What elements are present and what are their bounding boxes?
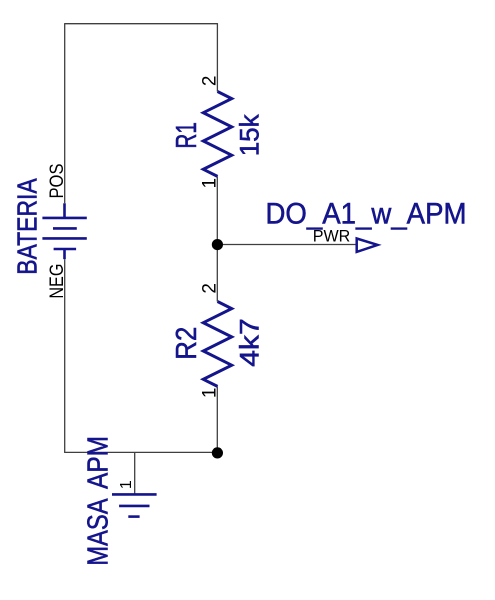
wire R2 pin1 to bottom junction xyxy=(216,386,218,452)
power flag triangle PWR xyxy=(357,239,378,252)
ground symbol MASA APM xyxy=(112,494,157,516)
wire bottom horizontal xyxy=(64,451,217,453)
svg-text:15k: 15k xyxy=(234,114,264,156)
wire ground stub xyxy=(134,452,136,493)
resistor R2 zigzag xyxy=(203,302,231,387)
junction node at bottom wire xyxy=(212,447,223,458)
svg-text:1: 1 xyxy=(200,388,221,399)
svg-text:4k7: 4k7 xyxy=(234,318,264,367)
svg-text:BATERIA: BATERIA xyxy=(11,178,42,275)
svg-text:MASA: MASA xyxy=(83,498,115,566)
wire R1 pin1 to junction xyxy=(216,176,218,244)
wire top horizontal xyxy=(65,23,218,25)
wire junction to R2 pin2 xyxy=(216,245,218,302)
svg-text:NEG: NEG xyxy=(46,264,68,299)
wire right vertical top xyxy=(216,23,218,91)
svg-text:DO_A1_w_APM: DO_A1_w_APM xyxy=(266,197,467,230)
svg-text:R2: R2 xyxy=(171,327,203,360)
resistor R1 zigzag xyxy=(203,92,231,177)
svg-text:R1: R1 xyxy=(171,122,203,149)
svg-text:APM: APM xyxy=(83,436,115,489)
svg-text:1: 1 xyxy=(118,480,135,489)
svg-text:2: 2 xyxy=(200,76,221,87)
junction node at R1/R2/output xyxy=(212,239,223,250)
battery BATERIA symbol xyxy=(42,203,86,259)
svg-text:POS: POS xyxy=(46,164,68,199)
wire left vertical upper xyxy=(64,23,66,203)
wire output horizontal to PWR flag xyxy=(217,244,356,246)
svg-text:1: 1 xyxy=(200,178,221,189)
svg-text:PWR: PWR xyxy=(313,227,351,246)
svg-text:2: 2 xyxy=(200,283,221,294)
wire left vertical lower xyxy=(64,259,66,452)
